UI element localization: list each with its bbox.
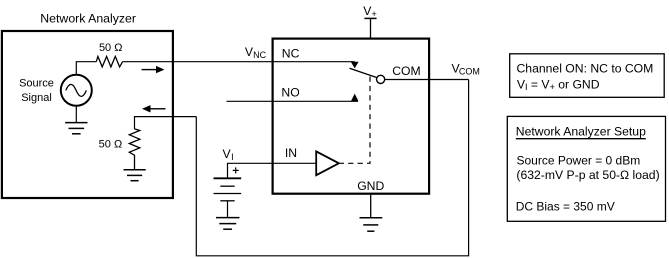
label Source Signal: [19, 78, 54, 104]
switch COM pole circle: [377, 75, 385, 83]
wire source to resistor: [76, 62, 96, 75]
svg-text:COM: COM: [392, 64, 420, 78]
arrow right signal direction: [142, 66, 165, 73]
svg-text:VI = V+ or GND: VI = V+ or GND: [517, 77, 600, 92]
svg-text:IN: IN: [285, 146, 297, 160]
wire COM return loop: [196, 80, 468, 256]
wire IN from battery: [228, 163, 317, 178]
label VI: [223, 147, 234, 162]
ground below AC source: [65, 106, 87, 134]
svg-text:I: I: [231, 152, 234, 162]
network analyzer enclosure box: [2, 31, 173, 198]
AC source VG1: [61, 75, 92, 106]
power terminal V+: [364, 18, 376, 38]
wire return into analyzer: [135, 117, 197, 129]
ground below switch box: [360, 194, 383, 232]
wire COM output: [385, 79, 469, 81]
switch NO contact arrow: [351, 94, 359, 102]
switch NC contact arrow: [351, 62, 359, 69]
label VCOM: [452, 61, 480, 76]
label VNC: [245, 45, 267, 60]
wire NO stub: [227, 100, 359, 102]
wire resistor to NC pin: [123, 61, 355, 63]
svg-text:+: +: [372, 9, 377, 19]
ground below vertical resistor: [124, 170, 146, 181]
svg-text:50 Ω: 50 Ω: [99, 42, 123, 54]
dashed control line: [340, 77, 370, 164]
svg-text:Channel ON: NC to COM: Channel ON: NC to COM: [517, 62, 654, 76]
svg-text:Source Power = 0 dBm: Source Power = 0 dBm: [517, 154, 641, 168]
buffer driver triangle: [316, 151, 339, 175]
svg-text:(632-mV P-p at 50-Ω load): (632-mV P-p at 50-Ω load): [516, 168, 659, 182]
svg-text:Network Analyzer: Network Analyzer: [40, 12, 136, 26]
battery plus sign: [233, 167, 239, 173]
svg-text:DC Bias = 350 mV: DC Bias = 350 mV: [516, 199, 615, 213]
svg-text:50 Ω: 50 Ω: [99, 139, 123, 151]
switch device box U1: [273, 39, 430, 194]
arrow left return direction: [142, 105, 166, 112]
note box network analyzer setup: [507, 116, 665, 221]
svg-text:Signal: Signal: [21, 92, 52, 104]
svg-text:NC: NC: [282, 47, 300, 61]
battery V_I source: [214, 178, 242, 217]
switch blade: [350, 68, 377, 77]
svg-text:NO: NO: [281, 85, 299, 99]
svg-text:Network Analyzer Setup: Network Analyzer Setup: [516, 124, 646, 138]
svg-text:COM: COM: [459, 67, 480, 77]
resistor 50 ohm vertical termination: [129, 129, 140, 170]
resistor 50 ohm horizontal: [96, 56, 122, 67]
note text source power: [516, 154, 659, 182]
note text channel on: [517, 62, 654, 93]
note title network analyzer setup: [516, 124, 646, 138]
note box channel on: [510, 54, 665, 98]
svg-text:NC: NC: [253, 50, 266, 60]
svg-text:Source: Source: [19, 78, 54, 90]
ground below battery: [216, 218, 240, 230]
svg-text:GND: GND: [357, 179, 384, 193]
label V+: [363, 4, 376, 19]
